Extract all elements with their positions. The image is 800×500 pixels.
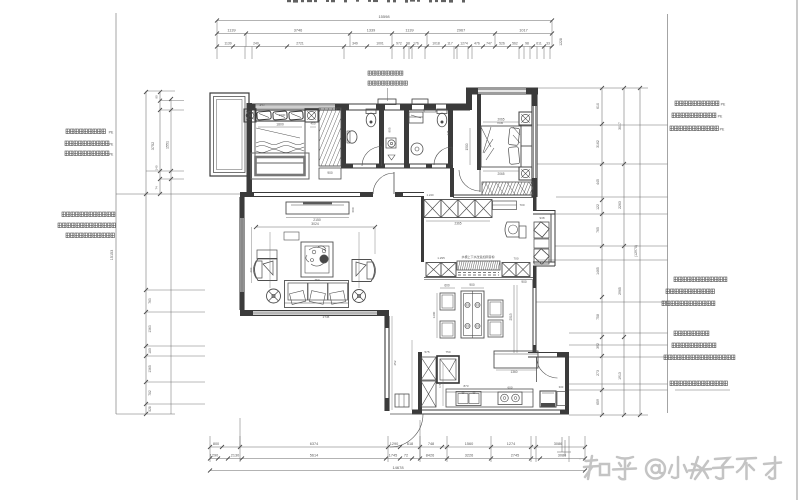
svg-text:528: 528 [148,406,152,412]
svg-text:2965: 2965 [618,287,622,295]
svg-text:2065: 2065 [497,172,504,176]
svg-text:763: 763 [148,298,152,304]
svg-text:450: 450 [260,103,265,107]
svg-text:600: 600 [249,267,253,272]
svg-text:1745: 1745 [389,454,397,458]
svg-text:1500: 1500 [465,143,469,150]
svg-text:240: 240 [253,42,259,46]
svg-text:2130: 2130 [231,454,239,458]
svg-text:2967: 2967 [457,29,465,33]
svg-text:700: 700 [519,203,524,207]
svg-text:1017: 1017 [519,29,527,33]
svg-text:600: 600 [351,207,355,212]
svg-text:450: 450 [310,122,315,126]
svg-text:1339: 1339 [367,29,375,33]
svg-text:747: 747 [486,42,492,46]
svg-text:6374: 6374 [310,442,318,446]
svg-text:2745: 2745 [323,315,330,319]
svg-text:611: 611 [536,42,542,46]
svg-text:72: 72 [404,454,408,458]
svg-text:122: 122 [596,204,600,210]
svg-text:2513: 2513 [509,313,513,320]
svg-text:1200: 1200 [432,311,436,318]
svg-text:3086: 3086 [554,442,562,446]
svg-text:575: 575 [424,350,429,354]
svg-text:765: 765 [596,227,600,233]
svg-text:1.50: 1.50 [438,382,442,388]
svg-text:14678: 14678 [392,465,404,470]
svg-text:PE: PE [721,103,726,107]
svg-text:900: 900 [469,283,475,287]
svg-text:5614: 5614 [310,454,318,458]
svg-text:3162: 3162 [596,140,600,148]
svg-text:15598: 15598 [378,14,390,19]
svg-text:PE: PE [109,142,114,146]
svg-text:750: 750 [314,278,319,282]
svg-text:98: 98 [406,42,410,46]
svg-text:562: 562 [512,42,518,46]
svg-text:1800: 1800 [276,123,284,127]
svg-text:117: 117 [447,42,453,46]
svg-text:1274: 1274 [507,442,515,446]
svg-text:90: 90 [155,95,159,99]
svg-text:245: 245 [446,130,450,135]
svg-text:1228: 1228 [559,38,563,46]
svg-text:2365: 2365 [454,222,461,226]
svg-text:1365: 1365 [148,365,152,373]
svg-text:600: 600 [444,284,450,288]
svg-text:1465: 1465 [596,267,600,275]
svg-text:1290: 1290 [390,442,398,446]
svg-text:905: 905 [388,127,392,132]
svg-text:74: 74 [155,186,159,190]
svg-text:1551: 1551 [166,141,170,149]
svg-text:445: 445 [596,179,600,185]
svg-text:1.240: 1.240 [427,193,434,197]
svg-text:1560: 1560 [465,442,473,446]
svg-text:1.295: 1.295 [437,256,445,260]
svg-text:PE: PE [109,130,114,134]
svg-text:180: 180 [148,348,152,354]
svg-text:7045: 7045 [497,121,504,125]
svg-text:98: 98 [525,42,529,46]
svg-text:252: 252 [393,360,397,365]
svg-text:140: 140 [155,165,159,170]
svg-text:700: 700 [513,257,518,261]
svg-text:618: 618 [407,442,413,446]
svg-text:392: 392 [596,343,600,349]
svg-text:PE: PE [718,115,723,119]
svg-text:33: 33 [546,42,550,46]
svg-text:972: 972 [396,42,402,46]
svg-text:873: 873 [463,384,468,388]
svg-text:1139: 1139 [227,29,235,33]
svg-text:659: 659 [596,399,600,405]
svg-text:1139: 1139 [224,42,231,46]
svg-text:750: 750 [445,350,450,354]
svg-text:476: 476 [474,42,480,46]
svg-text:800: 800 [213,442,219,446]
svg-text:900: 900 [521,280,527,284]
svg-text:1913: 1913 [618,372,622,380]
svg-text:2263: 2263 [618,201,622,209]
svg-text:水槽上下水改造加隔音棉: 水槽上下水改造加隔音棉 [461,254,494,259]
svg-text:1001: 1001 [376,42,384,46]
svg-text:15153: 15153 [110,250,114,261]
svg-text:1139: 1139 [405,29,413,33]
svg-text:1363: 1363 [148,325,152,333]
svg-text:2721: 2721 [296,42,304,46]
svg-text:938: 938 [539,216,544,220]
svg-text:1360: 1360 [510,370,517,374]
svg-text:1018: 1018 [432,42,440,46]
svg-text:526: 526 [499,42,505,46]
svg-text:3752: 3752 [151,142,155,150]
svg-text:(12970): (12970) [634,245,638,257]
svg-text:3024: 3024 [311,222,319,226]
svg-text:PE: PE [109,152,114,156]
svg-text:1274: 1274 [460,42,468,46]
svg-text:758: 758 [596,314,600,320]
svg-text:3746: 3746 [294,29,302,33]
svg-text:1290: 1290 [210,454,218,458]
svg-text:349: 349 [352,42,358,46]
svg-text:782: 782 [148,390,152,396]
svg-text:748: 748 [428,442,434,446]
svg-text:273: 273 [596,370,600,376]
svg-text:PE: PE [720,127,725,131]
svg-text:300: 300 [559,385,564,389]
svg-text:610: 610 [596,103,600,109]
svg-text:3017: 3017 [618,122,622,130]
svg-text:2745: 2745 [511,454,519,458]
svg-text:176: 176 [413,42,419,46]
svg-text:*: * [579,457,581,462]
svg-text:1900: 1900 [279,113,286,117]
svg-text:900: 900 [327,171,333,175]
svg-text:3226: 3226 [465,454,473,458]
svg-text:600: 600 [507,386,512,390]
svg-text:8426: 8426 [426,454,434,458]
